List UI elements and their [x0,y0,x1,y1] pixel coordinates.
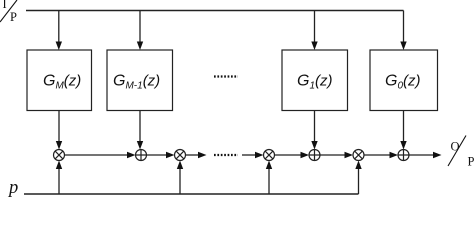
wire: drop to G_M(z) [58,11,60,43]
arrowhead p into multiplier X3 bottom [266,161,272,170]
block G_M(z) box [27,50,92,111]
wire: G_0(z) output down [403,111,405,143]
multiplier X4 [353,150,364,161]
wire: multiplier X3 to adder A2 [275,154,301,156]
multiplier X1 [54,150,65,161]
arrowhead multiplier X2 output [198,152,207,158]
wire: multiplier X1 to adder A1 [65,154,128,156]
arrowhead into adder A1 top [137,141,143,150]
wire: drop to G_1(z) [314,11,316,43]
ellipsis dots between blocks [214,75,238,77]
arrowhead into G_0(z) [400,42,406,51]
adder A1 [136,150,147,161]
wire: drop to G_0(z) [403,11,405,43]
block G_1(z) box [282,50,348,111]
ellipsis dots chain [214,154,238,156]
arrowhead p into multiplier X1 bottom [56,161,62,170]
arrowhead into G_1(z) [311,42,317,51]
arrowhead into multiplier X2 left [166,152,175,158]
arrowhead into adder A2 left [301,152,310,158]
svg-text:p: p [7,178,18,198]
svg-text:G1(z): G1(z) [297,73,333,92]
slash of O/P [448,136,466,167]
wire: input bus top horizontal [26,10,404,12]
wire: drop to G_M-1(z) [139,11,141,43]
adder A3 [398,150,409,161]
wire: stub into multiplier X3 [242,154,255,156]
block G_0(z) box [370,50,438,111]
arrowhead into adder A3 left [390,152,399,158]
svg-text:P: P [10,10,17,24]
wire: G_M-1(z) output down [139,111,141,143]
wire: p bus bottom horizontal [24,193,359,195]
arrowhead into adder A3 top [400,141,406,150]
wire: adder A3 to output [409,154,433,156]
arrowhead into adder A1 left [127,152,136,158]
arrowhead output [433,152,442,158]
arrowhead into multiplier X1 top [56,141,62,150]
arrowhead into multiplier X4 left [345,152,354,158]
arrowhead into G_M(z) [56,42,62,51]
wire: adder A1 to multiplier X2 [147,154,167,156]
svg-text:I: I [3,0,7,11]
wire: p riser to multiplier X2 [179,169,181,194]
wire: adder A2 to multiplier X4 [320,154,345,156]
arrowhead p into multiplier X4 bottom [355,161,361,170]
wire: multiplier X2 output stub [186,154,199,156]
wire: p riser to multiplier X3 [268,169,270,194]
wire: p riser to multiplier X4 [358,169,360,194]
multiplier X3 [264,150,275,161]
multiplier X2 [175,150,186,161]
arrowhead into multiplier X3 left [255,152,264,158]
wire: G_1(z) output down [314,111,316,143]
wire: G_M(z) output down [58,111,60,143]
slash of I/P [0,0,17,22]
svg-text:O: O [451,140,460,154]
block G_M-1(z) box [107,50,173,111]
adder A2 [309,150,320,161]
arrowhead into G_M-1(z) [137,42,143,51]
wire: p riser to multiplier X1 [58,169,60,194]
arrowhead p into multiplier X2 bottom [177,161,183,170]
wire: multiplier X4 to adder A3 [364,154,390,156]
svg-text:P: P [468,155,474,169]
arrowhead into adder A2 top [311,141,317,150]
svg-text:G0(z): G0(z) [385,73,421,92]
